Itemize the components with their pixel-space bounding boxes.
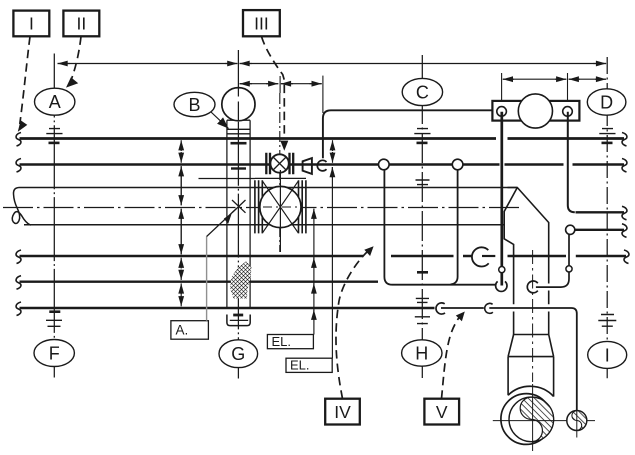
A. label box [171,321,209,340]
vertical dimension pipe1-pipe2 at x 332.5 [332,140,334,163]
svg-text:A.: A. [176,323,189,338]
blower casing circle [501,394,552,445]
callout box II [63,11,99,37]
dimension line B to valve centre at y 83.7 [240,83,279,85]
callout box IV [325,399,360,425]
dimension chain pipe2-centerline [180,166,182,205]
callout III arrowhead [280,141,288,151]
connection circle on stub 230 [566,225,575,234]
axis C-H ticks above big pipe [416,180,430,185]
duct centreline [532,250,534,382]
riser tick bars above pipe 1 [227,129,250,134]
EL1 elevation line with arrows [313,209,315,335]
pipe 4 right break [624,250,629,264]
big valve body circle [260,186,301,227]
union circle on drop pipe [499,267,505,273]
pipe 5 left break [16,276,21,290]
dimension line B to D at y 63.5 [240,63,607,65]
funnel on duct centreline [527,281,537,293]
axis A-F thick tick below pipe1 [49,142,60,145]
big pipe bottom edge [24,224,504,226]
X mark at axis [232,200,246,213]
label ellipse D [587,89,626,115]
axis D-I bottom ticks [598,315,616,327]
axis A-F ticks at pipe 1 [46,129,62,144]
axis C-H mid thick tick [417,271,428,274]
dimension line pump to D at y 79.2 [569,78,606,80]
label ellipse F [34,340,74,367]
svg-text:III: III [254,14,269,34]
extension line pump left port [501,73,503,101]
svg-text:B: B [188,95,200,115]
A. leader diagonal to X mark [207,209,237,237]
callout I arrowhead [18,120,28,132]
pipe 6 [20,307,435,309]
small valve ball [270,154,288,172]
blower casing top arc [508,386,553,396]
drop pipe end into funnel [500,273,503,286]
siphon trap right leg arc [451,170,458,284]
svg-text:I: I [605,345,610,365]
callout II dashed leader [72,37,82,80]
open connection C on pipe 2 [317,160,326,171]
pipe 5 [20,281,379,283]
siphon trap right circle on pipe 2 [452,159,463,170]
B leader arrow to riser [211,112,229,129]
callout box I [13,11,49,37]
blower and motor crosshair horizontal [493,420,595,422]
drain line C2 to elbow [489,308,577,410]
pump right port circle [563,107,573,117]
pump left drop pipe [500,112,503,267]
right stub pipe 230 break [622,224,627,238]
callout box III [243,10,280,36]
axis C-H ticks near pipe 6 [416,298,429,302]
right stub pipe 212 break [622,206,627,220]
hatch blob on riser [230,261,252,299]
siphon trap [384,170,495,285]
callout II arrowhead [66,77,78,87]
blower impeller yin-yang [509,397,554,442]
svg-text:IV: IV [334,402,351,422]
riser pipe from ball tap [227,120,250,308]
axis B-G [237,50,239,379]
extension line valve centre [279,76,281,93]
elbow riser to pump line [323,110,493,158]
right stub pipe from pump elbow [576,211,625,213]
axis C-H ticks at pipe 1 [414,129,430,134]
svg-text:V: V [436,402,448,422]
drip cup at G [227,315,250,326]
dimension line valve centre to elbow at y 83.7 [281,83,322,85]
pump unit big circle [518,94,552,128]
axis through ball tap [237,88,239,120]
riser tick below pipe 2 [231,167,246,169]
connection stub [323,164,329,166]
big pipe left break [12,188,31,226]
riser wide tick bar [199,178,256,180]
extension line elbow [322,76,324,113]
drip cup water line [230,319,248,321]
A. leader arrowhead [224,213,232,224]
big valve left flange [255,180,262,233]
pipe 1 right break [622,133,627,147]
dimension line A to B at y 63.5 [58,63,238,65]
axis C-H [421,55,423,378]
svg-text:A: A [49,92,61,112]
label ellipse C [402,78,442,105]
ball tap B [222,88,255,121]
axis D-I [606,57,608,378]
pipe 4 left break [16,250,21,264]
callout V dashed leader [442,316,461,399]
pipe 2 right break [622,159,627,173]
svg-text:EL.: EL. [290,358,310,373]
label ellipse G [219,340,258,368]
right stub pipe 230 [575,229,624,231]
svg-text:C: C [416,83,429,103]
callout III dashed leader [262,37,285,139]
callout IV arrowhead [364,246,373,256]
A. leader vertical [206,237,208,321]
svg-text:II: II [77,14,87,34]
big valve right flange [299,180,306,233]
label ellipse H [402,340,442,366]
reducer cone [303,158,312,174]
small motor crosshair vertical [576,404,578,438]
big pipe top edge [19,187,517,189]
callout IV dashed leader [336,252,368,399]
axis D-I ticks at pipe 1 [599,129,615,134]
pipe end cap at G [233,314,243,317]
drain arc to funnel on duct [536,272,569,287]
callout I dashed leader [20,37,30,125]
big pipe centerline [3,207,522,209]
drain line pipe6 to C2 [441,307,484,309]
pipe 6 left break [16,302,21,316]
pipe 2 [20,163,625,165]
duct taper [508,335,553,397]
axis A-F bottom ticks [49,310,60,313]
svg-text:F: F [49,344,60,364]
big valve cross [263,181,299,233]
EL2 elevation line with arrow [331,167,333,358]
pipe 1 [20,137,625,140]
svg-text:EL.: EL. [272,334,292,349]
C3 stub [482,255,495,257]
vertical dimension chain at x 181 : pipe1-pipe2 [180,140,182,163]
drain riser from stub 230 [568,234,570,265]
axis A-F [53,54,55,378]
EL1 label box [267,335,313,349]
funnel under drop pipe [496,281,507,291]
small valve cross [273,157,286,170]
svg-text:G: G [231,344,245,364]
callout V arrowhead [456,312,465,322]
pump right port elbow [568,112,575,213]
open connection C3 on pipe 4 [472,247,489,266]
open connection C2 on pipe 6 drain [485,303,493,313]
dimension chain pipe5-pipe6 [180,283,182,306]
pipe 2 left break [16,159,21,173]
pipe 4 [20,255,627,257]
EL2 label box [286,358,332,372]
label ellipse I [588,341,627,368]
small motor yin-yang hatch [572,411,587,431]
big valve stem line [279,170,281,252]
duct transition pentagon [497,188,549,335]
valve centreline dash-dot [279,93,281,252]
big valve bonnet line [255,177,306,179]
open connection C1 on pipe 6 [436,303,445,314]
label ellipse B [174,92,215,116]
siphon trap left circle on pipe 2 [379,159,390,170]
svg-text:H: H [415,344,428,364]
centreline dashes inside valve [263,206,298,208]
svg-text:D: D [600,93,613,113]
riser top cap line [227,119,250,121]
pump/fan unit frame [492,101,579,121]
callout box V [424,399,459,425]
union circle on drain riser [566,266,572,272]
dimension line pump ports at y 79.2 [503,78,567,80]
label ellipse A [35,88,75,115]
blower crosshair vertical [532,384,534,451]
pump left port circle [497,107,507,117]
dimension chain pipe4-pipe5 [180,258,182,280]
small motor circle [567,411,587,431]
extension line pump right port [567,73,569,101]
dimension chain centerline-pipe4 [180,209,182,255]
pipe 1 left break [16,133,21,147]
small valve flanges [266,153,293,175]
svg-text:I: I [29,14,34,34]
riser thick tick below pipe 1 [231,142,247,145]
